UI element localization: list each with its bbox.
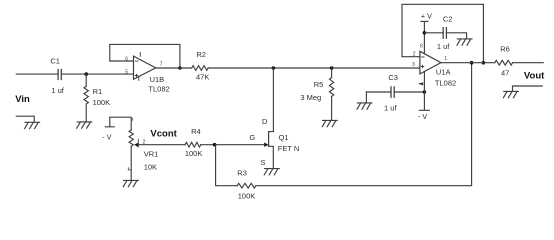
svg-text:FET N: FET N bbox=[278, 144, 300, 153]
wire: input from Vin terminal to C1 bbox=[16, 73, 57, 75]
wire: U1A feedback loop (output to pin2) bbox=[402, 4, 483, 62]
svg-text:10K: 10K bbox=[144, 162, 157, 171]
capacitor C1 bbox=[58, 70, 61, 80]
wire: C3 left to ground bbox=[366, 91, 391, 93]
wire: R6 to Vout bbox=[513, 62, 544, 64]
svg-text:R4: R4 bbox=[191, 127, 201, 136]
svg-text:C2: C2 bbox=[443, 15, 453, 24]
node: junction R4/R3 bbox=[213, 143, 217, 147]
svg-text:1: 1 bbox=[444, 56, 447, 62]
supply -V (U1A) bbox=[419, 72, 429, 111]
svg-text:- V: - V bbox=[418, 112, 427, 121]
wire: C3 to -V rail bbox=[394, 91, 424, 93]
ground (below VR1) bbox=[123, 180, 138, 186]
svg-text:2: 2 bbox=[143, 139, 146, 145]
svg-text:+ V: + V bbox=[421, 12, 432, 21]
resistor R5 bbox=[331, 68, 333, 78]
wire: Vin return stub bbox=[16, 116, 34, 122]
ground (Vin return) bbox=[25, 122, 40, 128]
ground (Q1 source) bbox=[264, 169, 279, 175]
transistor Q1 drain wire bbox=[269, 68, 274, 132]
wire: Vout return stub bbox=[513, 86, 543, 91]
svg-text:3: 3 bbox=[412, 62, 415, 68]
wire: U1A output bbox=[441, 62, 495, 64]
wire: junction down to R3 bbox=[216, 145, 238, 186]
op-amp U1B bbox=[134, 56, 156, 79]
svg-text:1 uf: 1 uf bbox=[384, 104, 397, 113]
svg-text:R6: R6 bbox=[500, 45, 510, 54]
svg-text:1 uf: 1 uf bbox=[437, 42, 450, 51]
svg-text:G: G bbox=[249, 133, 255, 142]
node: junction feedback/output bbox=[470, 61, 474, 65]
resistor R3 bbox=[237, 183, 256, 188]
wire: R2 to U1A pin3 bbox=[208, 67, 420, 69]
svg-text:R3: R3 bbox=[237, 168, 247, 177]
node: junction C1/R1 bbox=[84, 72, 88, 76]
node: junction C3/-V bbox=[423, 90, 427, 94]
svg-text:VR1: VR1 bbox=[144, 149, 159, 158]
wire: VR1 wiper to R4 bbox=[138, 144, 185, 146]
resistor R6 bbox=[495, 60, 513, 65]
svg-text:6: 6 bbox=[125, 57, 128, 63]
svg-text:3 Meg: 3 Meg bbox=[300, 93, 321, 102]
op-amp U1A bbox=[420, 51, 441, 74]
svg-text:47: 47 bbox=[501, 68, 509, 77]
svg-text:S: S bbox=[260, 158, 265, 167]
svg-text:2: 2 bbox=[413, 52, 416, 58]
capacitor C2 bbox=[443, 28, 446, 39]
svg-text:R1: R1 bbox=[93, 87, 103, 96]
wire: R4 to Q1 gate bbox=[201, 144, 265, 146]
wire: -V to VR1 top bbox=[110, 117, 131, 130]
ground (C3) bbox=[365, 92, 367, 103]
wire: U1B output bbox=[156, 67, 192, 69]
node: junction R5 bbox=[330, 66, 334, 70]
ground (below R5) bbox=[322, 120, 337, 126]
svg-text:C1: C1 bbox=[50, 57, 60, 66]
potentiometer VR1 bbox=[129, 130, 133, 146]
svg-text:- V: - V bbox=[102, 133, 111, 142]
ground (C2) bbox=[457, 39, 472, 45]
svg-text:47K: 47K bbox=[196, 72, 209, 81]
wire: C2 to ground bbox=[446, 33, 466, 39]
svg-text:1 uf: 1 uf bbox=[51, 86, 64, 95]
transistor Q1 channel bbox=[268, 132, 270, 147]
resistor R4 bbox=[185, 142, 201, 147]
svg-text:TL082: TL082 bbox=[435, 79, 456, 88]
svg-text:TL082: TL082 bbox=[148, 84, 169, 93]
svg-text:Vin: Vin bbox=[15, 94, 30, 105]
svg-text:Vcont: Vcont bbox=[150, 129, 177, 140]
wire: R3 to output feedback riser bbox=[256, 63, 472, 186]
ground (Vout return) bbox=[503, 91, 518, 97]
capacitor C3 bbox=[391, 87, 394, 97]
svg-text:U1B: U1B bbox=[150, 75, 165, 84]
node: U1A feedback/output junction bbox=[482, 61, 486, 65]
svg-text:100K: 100K bbox=[93, 98, 111, 107]
svg-text:U1A: U1A bbox=[436, 67, 451, 76]
pin 4 marker bbox=[418, 82, 423, 85]
resistor R1 bbox=[85, 74, 87, 86]
supply +V bbox=[421, 21, 428, 53]
ground (below R1) bbox=[77, 122, 92, 128]
svg-text:5: 5 bbox=[125, 70, 128, 76]
wire: +V to C2 bbox=[424, 32, 443, 34]
svg-text:D: D bbox=[262, 117, 268, 126]
svg-text:R5: R5 bbox=[314, 80, 324, 89]
svg-text:100K: 100K bbox=[185, 149, 203, 158]
svg-text:7: 7 bbox=[160, 61, 163, 67]
node: junction drain bbox=[272, 66, 276, 70]
svg-text:Vout: Vout bbox=[524, 71, 545, 82]
svg-text:100K: 100K bbox=[238, 191, 256, 200]
node: U1B output junction bbox=[178, 66, 182, 70]
node: junction +V/C2 bbox=[423, 31, 427, 35]
wire: C1 to U1B pin5 bbox=[62, 73, 133, 75]
wire: U1B feedback loop (pin7 to pin6) bbox=[110, 44, 180, 68]
svg-text:C3: C3 bbox=[388, 73, 398, 82]
svg-text:Q1: Q1 bbox=[279, 133, 289, 142]
supply -V (VR1) bbox=[105, 117, 114, 127]
svg-text:R2: R2 bbox=[196, 50, 206, 59]
resistor R2 bbox=[192, 66, 209, 71]
svg-text:8: 8 bbox=[420, 43, 423, 49]
transistor Q1 gate arrow bbox=[264, 143, 268, 147]
transistor Q1 source wire bbox=[269, 146, 274, 168]
